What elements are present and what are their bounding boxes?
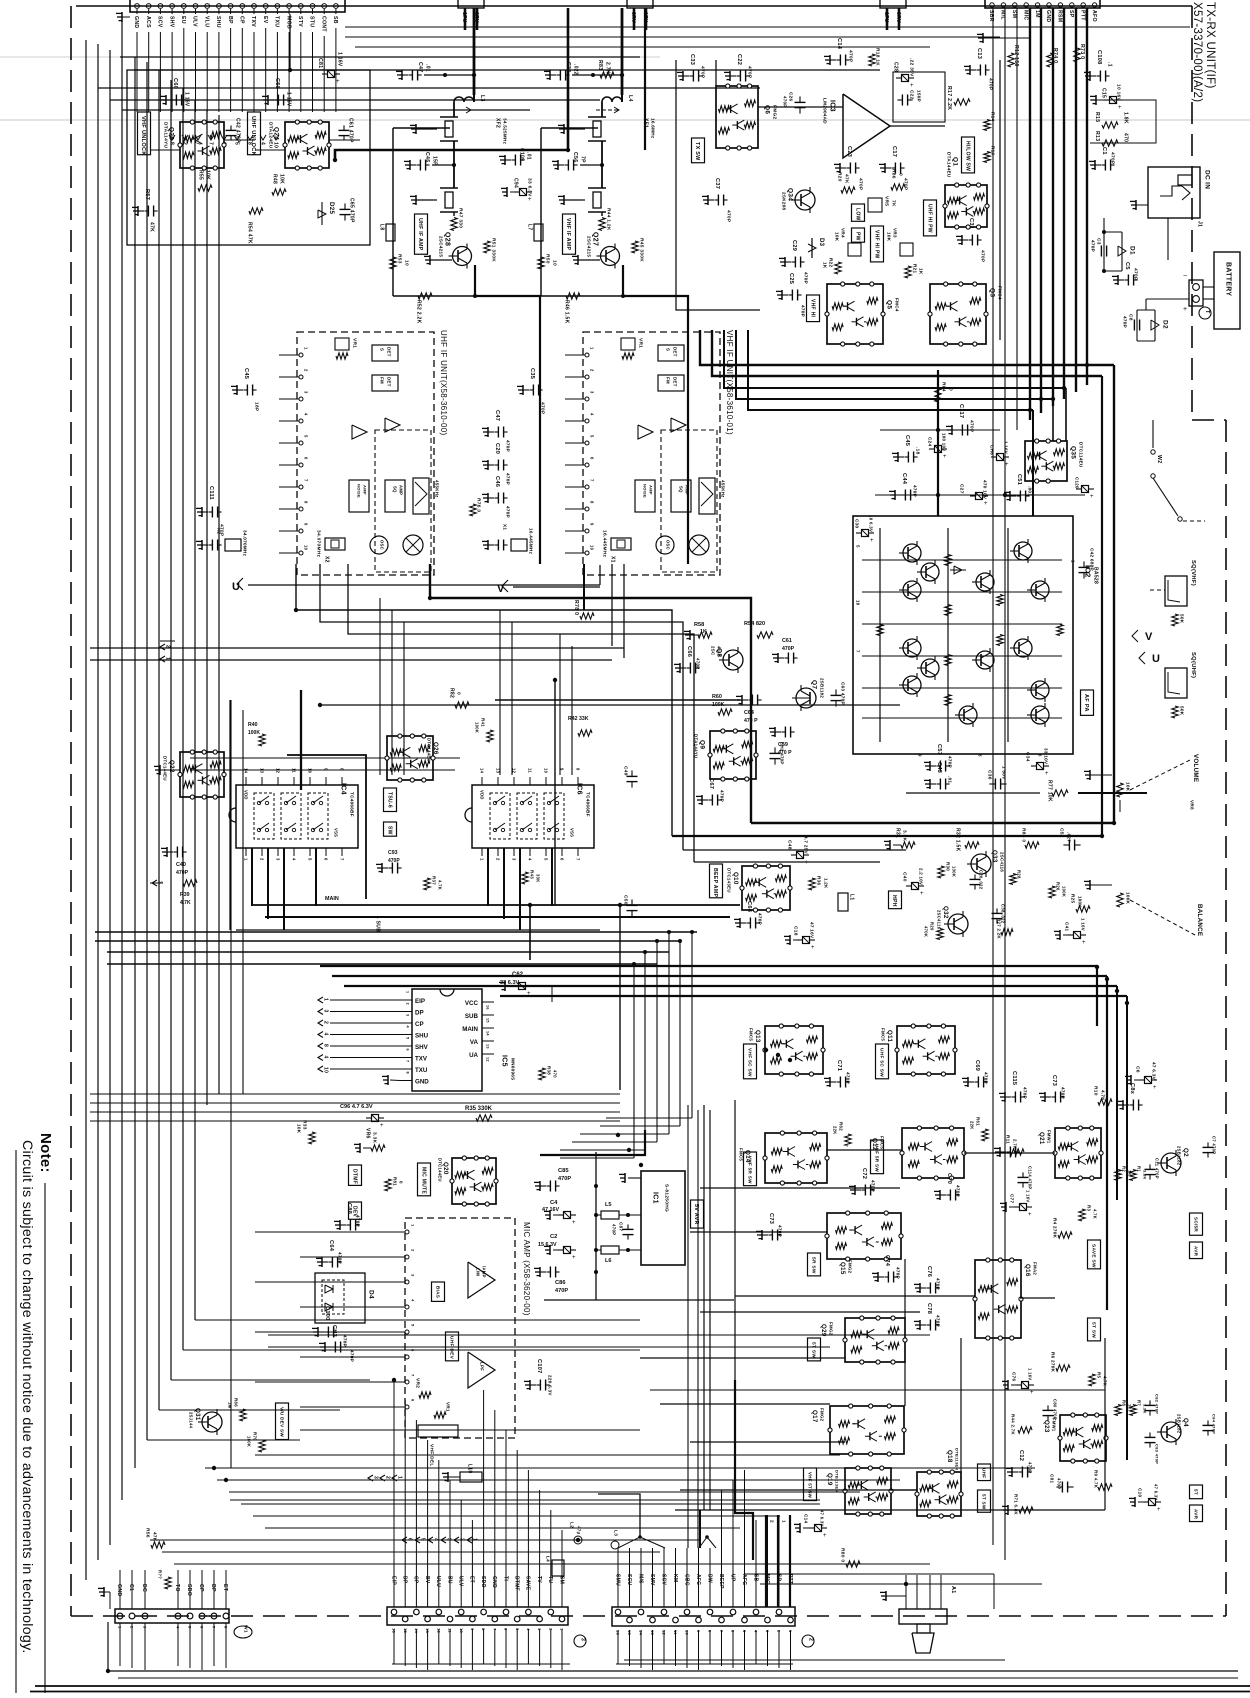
svg-text:C84 470P: C84 470P	[1212, 1414, 1217, 1434]
svg-text:5T SW: 5T SW	[1090, 1322, 1096, 1338]
svg-text:R13: R13	[1094, 131, 1100, 141]
svg-text:470P: 470P	[342, 1335, 347, 1347]
svg-text:9: 9	[304, 523, 309, 526]
svg-text:C26: C26	[788, 92, 793, 101]
svg-text:+: +	[1045, 771, 1049, 777]
svg-text:MIC AMP (X58-3620-00): MIC AMP (X58-3620-00)	[522, 1222, 531, 1316]
svg-text:2SC4116: 2SC4116	[999, 852, 1004, 872]
svg-text:C42 470P: C42 470P	[234, 118, 240, 143]
svg-text:100K: 100K	[248, 730, 260, 736]
svg-text:TXU: TXU	[415, 1067, 428, 1074]
svg-text:470P: 470P	[947, 756, 952, 768]
svg-text:+: +	[1082, 940, 1086, 946]
svg-text:4: 4	[292, 858, 297, 861]
svg-text:470P: 470P	[777, 1225, 782, 1237]
svg-text:C41: C41	[1064, 922, 1069, 931]
svg-text:C33: C33	[565, 62, 571, 72]
svg-text:DTA114YU: DTA114YU	[162, 122, 168, 149]
svg-text:15: 15	[486, 1018, 490, 1023]
svg-text:7: 7	[576, 858, 581, 861]
svg-text:KM: KM	[672, 1574, 678, 1582]
svg-text:1 16V: 1 16V	[1080, 918, 1085, 931]
svg-text:C93: C93	[388, 850, 398, 856]
svg-text:CP: CP	[415, 1021, 424, 1028]
svg-text:R55: R55	[197, 170, 203, 180]
svg-text:C76: C76	[926, 1266, 932, 1277]
svg-text:1: 1	[406, 991, 410, 993]
svg-text:FM: FM	[379, 377, 384, 384]
svg-text:R85 0: R85 0	[1020, 828, 1026, 842]
svg-text:Q3: Q3	[989, 288, 996, 297]
svg-text:100K: 100K	[475, 722, 480, 733]
svg-text:8: 8	[340, 768, 345, 771]
svg-text:S-81250HG: S-81250HG	[663, 1184, 669, 1212]
svg-text:SCU: SCU	[626, 1574, 632, 1586]
svg-text:X1: X1	[609, 556, 615, 563]
svg-text:Q17: Q17	[811, 1410, 818, 1423]
svg-text:−: −	[1183, 273, 1187, 280]
svg-text:C30: C30	[854, 519, 859, 528]
svg-text:12: 12	[512, 768, 517, 774]
svg-text:UHF HI PW: UHF HI PW	[926, 204, 932, 233]
svg-text:9: 9	[560, 768, 565, 771]
svg-text:1FU: 1FU	[461, 12, 467, 23]
svg-text:R16: R16	[990, 146, 995, 155]
svg-text:+: +	[336, 79, 340, 85]
svg-text:5: 5	[308, 858, 313, 861]
svg-text:R78 0: R78 0	[573, 600, 579, 615]
svg-text:10: 10	[308, 768, 313, 774]
svg-text:SM: SM	[1011, 10, 1017, 18]
svg-text:470: 470	[1122, 133, 1128, 142]
svg-text:C48: C48	[786, 840, 792, 850]
svg-text:C40: C40	[176, 862, 186, 868]
svg-text:7P: 7P	[579, 156, 585, 163]
svg-text:BEEP AMP: BEEP AMP	[712, 868, 718, 897]
svg-text:+: +	[1090, 494, 1094, 500]
svg-text:FMC4: FMC4	[894, 298, 899, 312]
svg-text:C87: C87	[618, 1222, 623, 1231]
svg-text:470P: 470P	[803, 272, 808, 284]
svg-text:4: 4	[590, 413, 595, 416]
svg-text:100 10V: 100 10V	[941, 433, 946, 451]
svg-text:4116: 4116	[716, 646, 721, 657]
svg-text:R7: R7	[1137, 1400, 1142, 1406]
svg-text:5: 5	[304, 435, 309, 438]
svg-text:470K: 470K	[924, 926, 929, 937]
svg-text:R73 0: R73 0	[1079, 44, 1085, 59]
svg-text:+: +	[910, 83, 914, 89]
svg-text:10 6.3V: 10 6.3V	[868, 515, 873, 532]
svg-text:3: 3	[372, 1476, 378, 1479]
svg-text:UHF DEV: UHF DEV	[448, 1336, 454, 1360]
svg-text:SMU: SMU	[614, 1574, 620, 1586]
svg-text:VHF HI PW: VHF HI PW	[873, 230, 879, 259]
svg-text:DET: DET	[672, 347, 677, 357]
svg-text:16: 16	[486, 1005, 490, 1010]
svg-text:1K: 1K	[918, 268, 923, 275]
svg-text:15 6.3V: 15 6.3V	[538, 1242, 557, 1248]
svg-text:MAIN: MAIN	[462, 1026, 478, 1033]
svg-text:455KHz: 455KHz	[720, 480, 725, 498]
svg-text:EV: EV	[262, 16, 268, 24]
svg-text:R9 4.7K: R9 4.7K	[1093, 1470, 1098, 1489]
svg-text:Q35: Q35	[1070, 446, 1077, 459]
svg-text:2SC4215: 2SC4215	[438, 236, 443, 257]
svg-text:10: 10	[304, 545, 309, 551]
svg-text:4.7K: 4.7K	[1093, 1209, 1098, 1219]
svg-text:LIM: LIM	[476, 1268, 481, 1276]
svg-text:C8x: C8x	[1129, 1083, 1135, 1095]
svg-text:BU: BU	[446, 1576, 452, 1584]
svg-text:X57-3370-00)(A/2): X57-3370-00)(A/2)	[1191, 2, 1203, 102]
svg-text:C45: C45	[243, 368, 249, 379]
svg-text:13: 13	[496, 768, 501, 774]
svg-text:5T SW: 5T SW	[810, 1342, 816, 1358]
svg-text:R22: R22	[828, 258, 833, 267]
svg-text:C43: C43	[936, 762, 942, 773]
svg-text:L4: L4	[545, 1556, 550, 1562]
svg-text:R18 1K: R18 1K	[874, 48, 880, 66]
svg-text:10K: 10K	[886, 232, 891, 242]
svg-text:R44 2.7K: R44 2.7K	[1010, 1414, 1015, 1435]
svg-text:C17: C17	[891, 146, 897, 157]
svg-text:470P: 470P	[558, 1176, 571, 1182]
svg-text:6: 6	[324, 858, 329, 861]
svg-text:SP: SP	[775, 1574, 781, 1582]
svg-text:7: 7	[304, 479, 309, 482]
svg-text:C35: C35	[529, 368, 535, 379]
svg-text:14: 14	[480, 768, 485, 774]
svg-text:L5: L5	[605, 1202, 612, 1208]
svg-text:C26 .022: C26 .022	[979, 870, 984, 890]
svg-text:TC4066BF: TC4066BF	[349, 792, 354, 817]
svg-text:M/S: M/S	[637, 1574, 643, 1584]
svg-text:1: 1	[781, 1520, 786, 1523]
svg-text:R51 330K: R51 330K	[490, 238, 496, 262]
svg-text:7: 7	[855, 650, 860, 653]
svg-text:.1: .1	[1106, 62, 1112, 67]
svg-text:2SB1182: 2SB1182	[819, 678, 824, 698]
svg-text:TU: TU	[547, 1576, 553, 1583]
svg-text:4: 4	[432, 1538, 438, 1541]
svg-text:1 16V: 1 16V	[336, 52, 342, 67]
svg-text:5: 5	[544, 858, 549, 861]
svg-text:10K: 10K	[1125, 782, 1130, 792]
svg-text:1 16V: 1 16V	[285, 92, 291, 107]
svg-text:470P: 470P	[1022, 1087, 1027, 1099]
svg-text:R83: R83	[597, 60, 603, 70]
svg-text:2: 2	[496, 858, 501, 861]
svg-text:D1: D1	[1129, 246, 1136, 255]
svg-text:W1: W1	[242, 1625, 248, 1633]
svg-text:Q2: Q2	[1182, 1148, 1189, 1157]
svg-text:+: +	[870, 538, 874, 544]
svg-text:DTC114EU: DTC114EU	[1078, 442, 1083, 468]
svg-text:R15: R15	[1094, 112, 1100, 122]
svg-text:1 16V: 1 16V	[183, 92, 189, 107]
svg-text:13: 13	[486, 1044, 490, 1049]
svg-text:3: 3	[406, 1014, 410, 1016]
svg-text:C40: C40	[901, 872, 907, 882]
svg-text:+: +	[1153, 1085, 1157, 1091]
svg-text:.22 35V: .22 35V	[908, 58, 914, 77]
svg-text:10: 10	[855, 600, 860, 606]
svg-text:VLU: VLU	[203, 16, 209, 27]
svg-text:+: +	[528, 197, 532, 203]
svg-text:34.070MHz: 34.070MHz	[315, 530, 321, 558]
svg-text:FMC5: FMC5	[738, 1148, 743, 1161]
svg-text:BEEP: BEEP	[718, 1574, 724, 1589]
svg-text:14: 14	[244, 768, 249, 774]
svg-text:10K: 10K	[296, 1124, 301, 1134]
svg-text:10: 10	[544, 768, 549, 774]
svg-text:1: 1	[322, 998, 328, 1001]
svg-text:4: 4	[322, 1033, 328, 1036]
svg-text:470P: 470P	[870, 1180, 875, 1192]
svg-text:C114 470P: C114 470P	[1028, 1166, 1033, 1189]
svg-text:R32 1.5K: R32 1.5K	[954, 828, 960, 852]
svg-text:FMG2: FMG2	[828, 1322, 833, 1336]
svg-text:C1: C1	[128, 1584, 134, 1591]
svg-text:R14: R14	[990, 112, 995, 121]
svg-text:PW: PW	[854, 232, 860, 241]
svg-text:C63 470P: C63 470P	[840, 682, 845, 705]
svg-text:470P: 470P	[935, 1315, 940, 1327]
svg-text:VR4: VR4	[840, 228, 845, 238]
svg-text:1 16V: 1 16V	[1026, 1190, 1031, 1202]
svg-text:10K: 10K	[834, 232, 839, 242]
svg-text:DTB113EK: DTB113EK	[835, 1470, 840, 1493]
svg-text:D2: D2	[1162, 320, 1169, 329]
svg-text:3: 3	[276, 858, 281, 861]
svg-text:10 16V: 10 16V	[1115, 84, 1121, 102]
svg-text:C86: C86	[555, 1280, 566, 1286]
svg-text:10: 10	[685, 1630, 690, 1636]
svg-text:VR1: VR1	[445, 1402, 450, 1412]
svg-text:C73: C73	[1051, 1075, 1057, 1086]
svg-text:13: 13	[650, 1630, 655, 1636]
svg-text:X2: X2	[323, 556, 329, 563]
svg-text:GND: GND	[116, 1584, 122, 1596]
svg-text:470P: 470P	[539, 402, 545, 415]
svg-text:3: 3	[156, 881, 162, 884]
svg-text:C1: C1	[1101, 147, 1107, 155]
svg-text:16: 16	[616, 1630, 621, 1636]
svg-text:Q25: Q25	[168, 127, 175, 140]
svg-text:VR1: VR1	[351, 338, 357, 348]
svg-text:+: +	[1183, 306, 1187, 313]
svg-text:R43: R43	[529, 870, 534, 879]
svg-text:Q4: Q4	[1182, 1418, 1189, 1427]
svg-text:C120: C120	[1074, 477, 1079, 489]
svg-text:470P: 470P	[800, 305, 805, 317]
svg-text:8: 8	[590, 501, 595, 504]
svg-text:CH3: CH3	[331, 1325, 337, 1337]
svg-text:VR3: VR3	[892, 228, 897, 238]
svg-text:470P: 470P	[955, 1185, 960, 1197]
svg-text:1: 1	[480, 858, 485, 861]
svg-text:R21: R21	[912, 264, 917, 273]
svg-text:C2: C2	[550, 1234, 557, 1240]
svg-text:7: 7	[340, 858, 345, 861]
svg-text:C47: C47	[494, 410, 500, 421]
svg-text:CH6: CH6	[989, 445, 994, 455]
svg-text:470P: 470P	[337, 1252, 342, 1264]
svg-text:C111: C111	[208, 486, 214, 500]
svg-text:C47: C47	[417, 62, 423, 72]
svg-text:7: 7	[207, 142, 213, 145]
svg-text:R35 330K: R35 330K	[465, 1106, 493, 1112]
svg-text:33 6.3V: 33 6.3V	[526, 178, 532, 197]
svg-text:R2: R2	[1122, 1166, 1127, 1172]
svg-text:SM: SM	[558, 1576, 564, 1584]
svg-text:SHV: SHV	[168, 16, 174, 28]
svg-text:1M: 1M	[1034, 10, 1040, 18]
svg-text:BP: BP	[210, 1584, 216, 1592]
svg-text:VHF IF AMP: VHF IF AMP	[565, 218, 571, 250]
svg-text:R??: R??	[158, 1570, 163, 1579]
svg-text:2.2 10V: 2.2 10V	[918, 868, 923, 885]
svg-text:CBC: CBC	[683, 1574, 689, 1586]
svg-text:VHF 5T SW: VHF 5T SW	[807, 1472, 812, 1499]
svg-text:BATTERY: BATTERY	[1225, 262, 1232, 296]
svg-text:Q32: Q32	[942, 906, 949, 919]
svg-text:SUB: SUB	[465, 1013, 479, 1020]
svg-text:R52 2.2K: R52 2.2K	[415, 300, 421, 324]
svg-text:13: 13	[425, 1628, 430, 1634]
svg-text:.027: .027	[1066, 832, 1071, 842]
svg-text:C83 470P: C83 470P	[1155, 1444, 1160, 1464]
svg-text:5T SW: 5T SW	[981, 1494, 986, 1510]
svg-text:R12 150: R12 150	[1013, 45, 1019, 67]
svg-text:R77 10K: R77 10K	[1046, 780, 1052, 802]
svg-text:SCV: SCV	[660, 1574, 666, 1586]
svg-text:GND: GND	[415, 1079, 429, 1086]
svg-text:C81: C81	[1049, 1474, 1054, 1483]
svg-text:SC/5R: SC/5R	[1193, 1217, 1198, 1232]
svg-text:8: 8	[304, 501, 309, 504]
svg-text:AFC: AFC	[695, 1574, 701, 1585]
svg-text:TXV: TXV	[415, 1056, 428, 1063]
svg-text:3: 3	[579, 1638, 585, 1641]
svg-text:9: 9	[324, 768, 329, 771]
svg-text:5: 5	[590, 435, 595, 438]
svg-text:C31: C31	[968, 218, 974, 229]
svg-text:C60: C60	[172, 78, 178, 89]
svg-text:C44: C44	[901, 473, 907, 485]
svg-text:C22: C22	[908, 90, 914, 100]
svg-text:7: 7	[590, 479, 595, 482]
svg-text:4: 4	[528, 858, 533, 861]
svg-text:3RV: 3RV	[895, 12, 901, 23]
svg-text:470P: 470P	[782, 646, 795, 652]
svg-text:R10: R10	[1092, 1086, 1098, 1096]
svg-text:C5: C5	[1124, 262, 1130, 270]
svg-text:C27: C27	[958, 484, 964, 494]
svg-text:2: 2	[384, 1476, 390, 1479]
svg-text:XF2: XF2	[494, 118, 500, 128]
svg-text:EU: EU	[180, 16, 186, 24]
svg-text:470P: 470P	[979, 250, 985, 263]
svg-text:X2: X2	[216, 528, 221, 534]
svg-text:3.3K: 3.3K	[371, 1132, 377, 1144]
svg-text:SAVE SW: SAVE SW	[1090, 1244, 1096, 1268]
svg-text:DC: DC	[141, 1584, 147, 1592]
svg-text:ET: ET	[469, 1576, 475, 1583]
svg-text:C42 680P: C42 680P	[1089, 548, 1094, 571]
svg-text:Note:: Note:	[37, 1133, 54, 1173]
svg-text:DC IN: DC IN	[1204, 170, 1211, 189]
svg-text:6: 6	[590, 457, 595, 460]
svg-text:SQ(VHF): SQ(VHF)	[1190, 560, 1196, 586]
svg-text:470P: 470P	[895, 1267, 900, 1279]
svg-text:10: 10	[403, 260, 409, 266]
svg-text:R50: R50	[544, 254, 550, 264]
svg-text:470P: 470P	[1109, 152, 1115, 165]
svg-text:+: +	[1118, 105, 1122, 111]
svg-text:R28: R28	[1017, 870, 1022, 879]
svg-text:R81: R81	[392, 1177, 397, 1186]
svg-text:C4: C4	[550, 1200, 558, 1206]
svg-text:DTMF: DTMF	[513, 1576, 519, 1591]
svg-text:Q23: Q23	[1043, 1420, 1050, 1433]
svg-text:+: +	[943, 454, 947, 460]
svg-text:4.7 25V: 4.7 25V	[803, 836, 808, 855]
svg-text:C25: C25	[788, 273, 794, 284]
svg-text:R45 330K: R45 330K	[638, 238, 644, 262]
svg-text:1M: 1M	[228, 1402, 233, 1409]
svg-text:VHF 5R SW: VHF 5R SW	[747, 1156, 752, 1184]
svg-text:Q5: Q5	[886, 300, 893, 309]
svg-text:AFG: AFG	[741, 1574, 747, 1585]
svg-text:TC4066BF: TC4066BF	[585, 792, 590, 817]
svg-text:4.7K: 4.7K	[438, 880, 443, 890]
svg-text:470P: 470P	[857, 178, 863, 191]
svg-text:0: 0	[398, 1181, 403, 1184]
svg-text:C13: C13	[976, 48, 982, 59]
svg-text:R61: R61	[975, 1117, 980, 1126]
svg-text:C96 4.7 6.3V: C96 4.7 6.3V	[340, 1104, 373, 1110]
svg-text:100K: 100K	[1125, 892, 1130, 905]
svg-text:16.6MHz: 16.6MHz	[650, 118, 655, 139]
svg-text:VDD: VDD	[480, 790, 485, 800]
svg-text:Q31: Q31	[194, 1408, 201, 1421]
svg-text:Q24: Q24	[273, 127, 280, 140]
svg-text:470P: 470P	[983, 1072, 988, 1084]
svg-text:C24: C24	[927, 437, 932, 446]
svg-text:TV: TV	[536, 1576, 542, 1583]
svg-text:100K: 100K	[1062, 886, 1067, 897]
svg-text:2.7K: 2.7K	[604, 62, 610, 74]
svg-text:CP: CP	[238, 16, 244, 24]
svg-text:470P: 470P	[757, 913, 762, 925]
svg-text:2: 2	[304, 369, 309, 372]
svg-text:VSS: VSS	[570, 828, 575, 837]
svg-text:SDO: SDO	[186, 1584, 192, 1596]
svg-text:BP: BP	[227, 16, 233, 24]
svg-text:R58: R58	[694, 622, 704, 628]
svg-text:DTMF: DTMF	[351, 1169, 357, 1184]
svg-text:FMG2: FMG2	[819, 1408, 824, 1422]
svg-text:C7 470P: C7 470P	[1212, 1136, 1217, 1154]
svg-text:470P: 470P	[611, 1224, 616, 1235]
svg-text:47 16V: 47 16V	[809, 922, 814, 939]
svg-text:47K: 47K	[152, 1532, 157, 1542]
svg-text:33K: 33K	[536, 874, 541, 883]
svg-text:R84: R84	[940, 382, 946, 392]
svg-text:7: 7	[406, 1060, 410, 1062]
